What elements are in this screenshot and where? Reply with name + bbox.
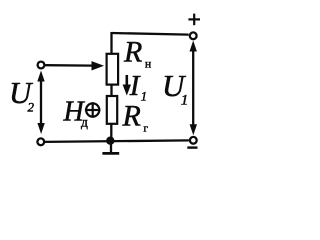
minus sign [187,146,197,148]
wire wiper arrow into Rн [45,61,104,70]
wire below Rг [110,124,112,142]
resistor Rг [107,96,117,124]
terminal U2 bottom [37,138,44,145]
label I1 [129,70,147,103]
svg-text:I: I [129,70,141,102]
label Rг [122,100,149,135]
svg-text:1: 1 [141,89,147,103]
label U1 [162,68,188,108]
svg-text:н: н [145,59,151,71]
svg-text:2: 2 [28,100,35,115]
wire bottom: from U2 lower terminal to U1 lower terminal [45,140,189,142]
svg-text:1: 1 [181,92,189,108]
voltage arrow U1 (double-headed) [190,41,198,136]
terminal U1 bottom [190,137,197,144]
terminal U2 top [38,62,45,69]
voltage arrow U2 (double-headed) [37,71,45,135]
resistor Rн (potentiometer body) [107,54,119,85]
svg-text:R: R [123,36,142,69]
wire top: from above Rн to U1 + terminal [112,32,189,54]
wire between Rн and Rг [110,85,112,97]
svg-text:д: д [81,114,88,129]
Hall element label Hд [63,96,89,129]
label Rн [123,36,151,71]
ground [102,141,119,154]
plus sign [188,14,200,26]
junction node [106,137,114,145]
terminal U1 top [190,32,197,39]
label U2 [9,75,35,115]
magnetic field symbol (circle with cross) [85,102,101,118]
current arrow I1 [123,75,131,96]
svg-text:г: г [144,123,149,135]
svg-text:R: R [122,100,141,133]
